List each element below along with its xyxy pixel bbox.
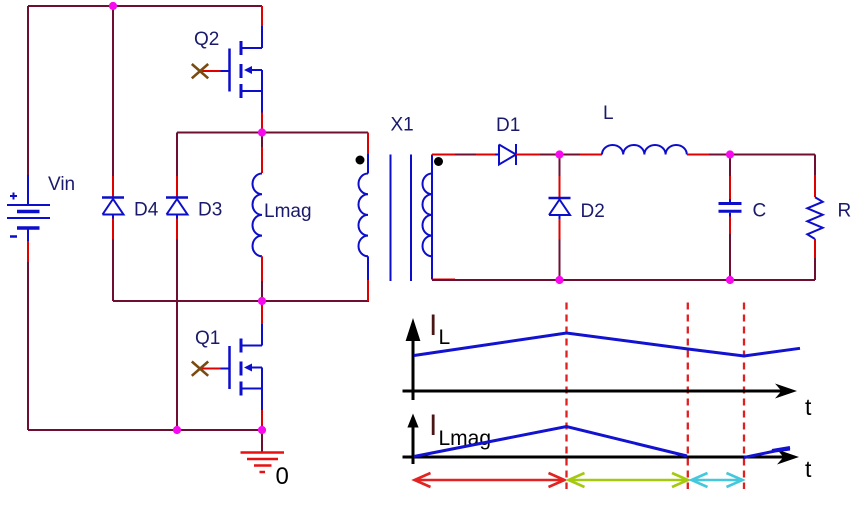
svg-text:0: 0	[276, 463, 289, 490]
svg-text:I: I	[429, 409, 437, 442]
svg-text:t: t	[805, 394, 812, 420]
svg-text:L: L	[603, 103, 614, 124]
svg-text:L: L	[439, 326, 451, 349]
svg-text:Q2: Q2	[194, 29, 219, 50]
svg-text:Lmag: Lmag	[264, 201, 312, 222]
svg-text:D1: D1	[496, 115, 520, 136]
svg-text:I: I	[429, 309, 437, 342]
svg-text:D4: D4	[134, 200, 159, 221]
svg-text:t: t	[805, 456, 812, 482]
svg-text:D2: D2	[581, 201, 605, 222]
svg-text:Vin: Vin	[48, 174, 75, 195]
svg-text:Q1: Q1	[195, 328, 220, 349]
svg-text:X1: X1	[391, 115, 414, 136]
svg-text:R: R	[838, 201, 852, 222]
svg-text:C: C	[753, 201, 767, 222]
svg-text:D3: D3	[198, 200, 222, 221]
